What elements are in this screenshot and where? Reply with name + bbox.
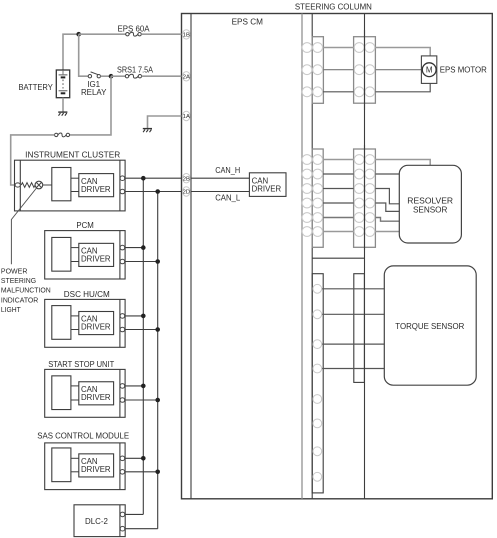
junction DSC CAN_L [155, 327, 160, 332]
svg-text:PCM: PCM [76, 221, 94, 230]
junction CAN_H at instrument cluster [141, 176, 146, 181]
svg-text:EPS CM: EPS CM [232, 18, 264, 27]
connector C5 pins [313, 284, 322, 293]
svg-text:STEERING COLUMN: STEERING COLUMN [295, 2, 372, 11]
connector block C6 (torque sensor) [354, 274, 365, 383]
wire motor phase 2 [307, 69, 421, 71]
wire node B+ to IG1 relay [79, 34, 89, 76]
pin SAS CAN_H [120, 456, 125, 461]
svg-text:MALFUNCTION: MALFUNCTION [1, 286, 51, 295]
svg-text:DRIVER: DRIVER [81, 254, 111, 263]
svg-text:RELAY: RELAY [81, 88, 107, 97]
svg-text:SENSOR: SENSOR [413, 204, 448, 214]
wire battery negative to ground [62, 98, 64, 112]
svg-text:DRIVER: DRIVER [252, 185, 282, 194]
ground EPS CM 1A [143, 128, 152, 130]
svg-text:2B: 2B [183, 176, 190, 182]
wire IG1 relay to node IG1 [101, 75, 110, 77]
svg-text:SAS CONTROL MODULE: SAS CONTROL MODULE [37, 432, 129, 441]
svg-text:INSTRUMENT CLUSTER: INSTRUMENT CLUSTER [25, 151, 120, 160]
wire block to CAN driver row2 [71, 191, 79, 193]
relay IG1 switch [88, 75, 91, 78]
wire PCM block to CAN driver [71, 247, 79, 249]
svg-text:POWER: POWER [1, 266, 28, 275]
svg-text:CAN_L: CAN_L [215, 194, 241, 203]
junction DSC CAN_H [141, 314, 146, 319]
wire PCM CAN_L to bus [125, 261, 158, 263]
svg-text:2A: 2A [183, 74, 190, 80]
column divider line [312, 257, 364, 259]
leader line to indicator light label [11, 188, 36, 264]
pin instrument cluster CAN_L [120, 189, 125, 194]
junction SAS CAN_L [155, 470, 160, 475]
svg-text:STEERING: STEERING [1, 276, 36, 285]
net CAN_L bus vertical [157, 192, 159, 529]
node B+ junction [76, 32, 81, 37]
wire torque sensor 3 [313, 343, 384, 345]
wire SAS CAN_H to bus [125, 457, 144, 459]
svg-text:BATTERY: BATTERY [19, 83, 54, 92]
pin SAS CAN_L [120, 470, 125, 475]
junction STARTSTOP CAN_H [141, 384, 146, 389]
junction STARTSTOP CAN_L [155, 398, 160, 403]
svg-text:DRIVER: DRIVER [81, 323, 111, 332]
pin DSC CAN_H [120, 314, 125, 319]
connector block C1 EPS CM to column (motor) [312, 37, 323, 104]
wire node IG1 to fuse SRS1 [111, 75, 125, 77]
pin 1B [183, 30, 191, 39]
pin instrument cluster CAN_H [120, 176, 125, 181]
pin DSC CAN_L [120, 327, 125, 332]
wire resolver 5 [307, 218, 399, 222]
svg-text:2D: 2D [183, 190, 190, 196]
op-amp CAN DRIVER instrument cluster [79, 174, 114, 197]
op-amp CAN DRIVER DSC [79, 312, 114, 335]
svg-text:DRIVER: DRIVER [81, 393, 111, 402]
wire resolver 4 [307, 203, 399, 211]
pin 2B [183, 174, 191, 183]
resistor R1 indicator [21, 183, 36, 188]
wire SAS block to CAN driver [71, 457, 79, 459]
svg-text:DSC HU/CM: DSC HU/CM [64, 290, 110, 299]
pin DLC-2 CAN_H [120, 512, 125, 517]
sensor TORQUE SENSOR [384, 266, 476, 385]
DSC internal block [52, 306, 71, 340]
wire PCM CAN_H to bus [125, 247, 144, 249]
pin instrument cluster power [15, 183, 20, 187]
junction CAN_L at instrument cluster [155, 189, 160, 194]
wire torque sensor 2 [313, 313, 384, 315]
pin STARTSTOP CAN_L [120, 398, 125, 403]
wire motor phase 3 [307, 83, 430, 91]
pin 1A wire to ground [148, 116, 182, 128]
pin STARTSTOP CAN_H [120, 384, 125, 389]
motor M1 EPS MOTOR [421, 56, 436, 84]
wire node IG1 to instrument cluster fuse [70, 76, 112, 135]
wire battery positive to node B+ [63, 34, 77, 70]
connector C4 pins [354, 155, 364, 165]
svg-text:TORQUE SENSOR: TORQUE SENSOR [395, 321, 464, 331]
wire DLC-2 CAN_L to bus [125, 528, 158, 530]
svg-text:CAN_H: CAN_H [215, 166, 240, 175]
wire resolver 6 [307, 231, 399, 233]
op-amp CAN DRIVER STARTSTOP [79, 382, 114, 405]
PCM internal block [52, 237, 71, 271]
op-amp U1 CAN DRIVER EPS CM [249, 173, 286, 197]
wire torque sensor 1 [313, 288, 384, 290]
pin DLC-2 CAN_L [120, 526, 125, 531]
STEERING COLUMN left edge [311, 14, 313, 499]
pin PCM CAN_H [120, 245, 125, 250]
module DLC-2 box [74, 505, 125, 537]
svg-text:1B: 1B [183, 33, 190, 39]
pin 2A [183, 72, 191, 81]
svg-text:1A: 1A [183, 114, 190, 120]
wire resolver 3 [307, 189, 399, 204]
wire STARTSTOP block to CAN driver [71, 385, 79, 387]
svg-text:M: M [426, 66, 433, 75]
wire STARTSTOP CAN_L to bus [125, 399, 158, 401]
connector C1 pins [302, 43, 312, 53]
wire node B+ to fuse EPS 60A [79, 33, 126, 35]
EPS CM left connector strip inner line [190, 14, 192, 499]
pin PCM CAN_L [120, 259, 125, 264]
net CAN_H bus vertical [142, 178, 144, 514]
junction SAS CAN_H [141, 456, 146, 461]
svg-text:SRS1 7.5A: SRS1 7.5A [117, 65, 154, 74]
STARTSTOP internal block [52, 376, 71, 410]
svg-text:EPS 60A: EPS 60A [118, 24, 151, 33]
wire block to CAN driver row1 [71, 177, 79, 179]
pin 1A [183, 111, 191, 120]
wire DSC CAN_H to bus [125, 315, 144, 317]
fuse SRS1 7.5A [125, 75, 128, 78]
instrument cluster internal block [52, 168, 71, 201]
wire SAS CAN_L to bus [125, 471, 158, 473]
connector block C4 column (resolver) [354, 149, 376, 247]
pin 2D [183, 187, 191, 196]
ground battery [58, 111, 67, 113]
column inner line over connectors [364, 30, 366, 110]
connector block C3 EPS CM to column (resolver) [312, 149, 323, 247]
svg-text:LIGHT: LIGHT [1, 305, 21, 314]
battery B1 [56, 70, 69, 98]
wire DSC CAN_L to bus [125, 329, 158, 331]
op-amp CAN DRIVER SAS [79, 454, 114, 477]
svg-text:DRIVER: DRIVER [81, 465, 111, 474]
connector strip C5 (torque sensor) [312, 274, 323, 493]
wire CAN_L instrument cluster to EPS CM 2D [124, 191, 250, 193]
connector C2 pins [354, 43, 364, 53]
wire motor phase 1 [307, 48, 430, 56]
svg-text:START STOP UNIT: START STOP UNIT [48, 360, 114, 369]
wire torque sensor 4 [313, 368, 384, 370]
connector C3 pins [302, 155, 312, 165]
fuse meter [55, 133, 58, 136]
node IG1 junction [109, 74, 114, 79]
svg-text:EPS MOTOR: EPS MOTOR [440, 66, 487, 75]
wire DLC-2 CAN_H to bus [125, 513, 143, 515]
EPS CM / STEERING COLUMN outer box [182, 14, 493, 499]
wire CAN_H instrument cluster to EPS CM 2B [124, 177, 250, 179]
svg-text:DRIVER: DRIVER [81, 185, 111, 194]
wire fuse SRS1 to pin 2A [142, 75, 182, 77]
wire fuse to instrument cluster pin [11, 135, 55, 185]
long column inner line [364, 14, 366, 499]
sensor RESOLVER SENSOR [399, 165, 461, 243]
fuse EPS 60A [126, 33, 129, 36]
wire DSC block to CAN driver [71, 315, 79, 317]
wire resolver 2 [307, 173, 399, 175]
SAS internal block [52, 448, 71, 482]
connector block C2 column (motor) [354, 37, 376, 104]
junction PCM CAN_H [141, 245, 146, 250]
wire STARTSTOP CAN_H to bus [125, 385, 144, 387]
wire fuse EPS 60A to pin 1B [141, 33, 181, 35]
op-amp CAN DRIVER PCM [79, 243, 114, 266]
svg-text:INDICATOR: INDICATOR [1, 295, 39, 304]
junction PCM CAN_L [155, 259, 160, 264]
EPS CM right edge [301, 14, 303, 499]
wire resolver 1 [307, 160, 430, 166]
svg-text:DLC-2: DLC-2 [85, 517, 108, 526]
wire lamp to cluster internal block [43, 184, 52, 186]
lamp power steering malfunction indicator [35, 181, 43, 189]
